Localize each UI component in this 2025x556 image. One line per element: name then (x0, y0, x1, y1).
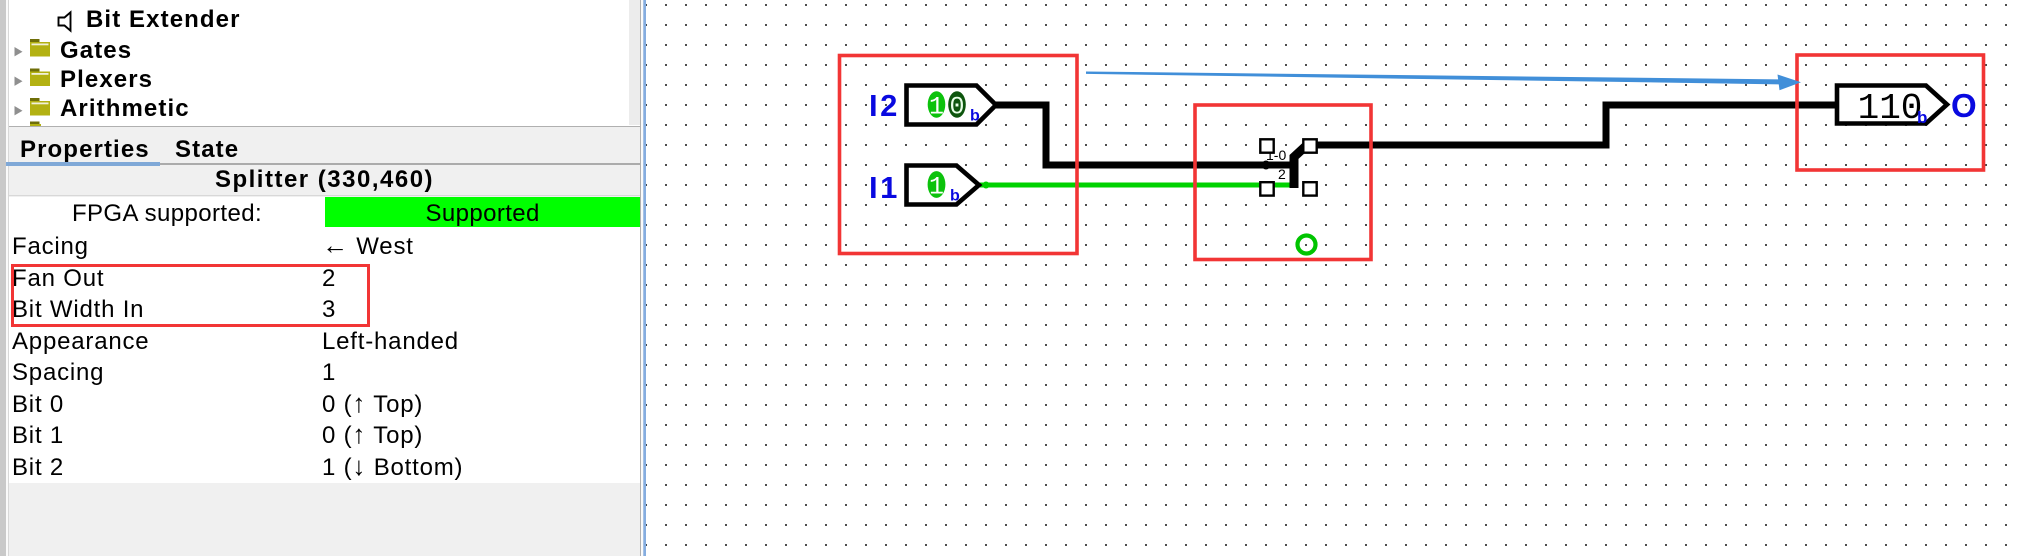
left edge strip (0, 0, 6, 556)
handle square top-left (1260, 139, 1273, 152)
pin I2 value 1 (928, 91, 946, 117)
annotation red box around input pins I2 I1 (840, 56, 1078, 254)
tree labels (86, 6, 241, 34)
svg-text:2: 2 (1278, 166, 1286, 182)
junction on branch wire at (1266,165) (1262, 161, 1271, 170)
tab underline blue (6, 162, 160, 166)
svg-text:b: b (1917, 108, 1927, 127)
annotation red box around splitter (1195, 105, 1371, 260)
annotation red box around output pin O (1797, 55, 1984, 170)
expander Plexers (15, 77, 23, 86)
annotation red box around Fan Out / Bit Width In rows (11, 264, 370, 327)
handle square top-right (1303, 139, 1316, 152)
wire I1 output to splitter branch 2 (value 1, green) (980, 183, 1292, 188)
tree icons svg (0, 0, 660, 140)
pin I1 value 1 (928, 171, 946, 198)
bit extender icon (59, 12, 71, 30)
svg-text:110: 110 (1858, 88, 1923, 129)
expander Arithmetic (15, 106, 23, 115)
table rows (9, 200, 325, 228)
splitter (330,460) spine (1294, 144, 1308, 188)
svg-text:b: b (970, 108, 980, 125)
svg-text:1: 1 (929, 173, 944, 202)
pin I2 body (907, 86, 997, 125)
folder Gates (30, 39, 50, 57)
tabs (20, 136, 150, 164)
handle square bottom-right (1303, 182, 1316, 195)
pin I1 body (907, 166, 980, 205)
folder Plexers (30, 69, 50, 87)
folder partial bottom (30, 122, 41, 127)
handle square bottom-left (1260, 182, 1273, 195)
node I1 output port (green dot) (983, 182, 990, 189)
green cell (325, 197, 640, 227)
svg-text:O: O (1951, 87, 1977, 124)
svg-text:I2: I2 (869, 88, 900, 123)
component tree pane (9, 0, 640, 127)
svg-text:b: b (950, 188, 960, 205)
properties table (9, 197, 640, 483)
folder Arithmetic (30, 98, 50, 116)
annotation blue arrow from inputs to output (1086, 72, 1783, 85)
svg-text:I1: I1 (869, 170, 900, 205)
pin I2 value 0 (948, 91, 966, 117)
expander Gates (15, 47, 23, 56)
wire splitter trunk to pin O (3-bit) (1306, 105, 1837, 145)
node marker green ring (1298, 236, 1316, 254)
svg-text:0: 0 (949, 93, 964, 122)
pin O body (1837, 86, 1947, 124)
header (9, 166, 640, 194)
wire I2 output to splitter branch 1-0 (2-bit) (996, 105, 1294, 165)
svg-text:1: 1 (929, 93, 944, 122)
